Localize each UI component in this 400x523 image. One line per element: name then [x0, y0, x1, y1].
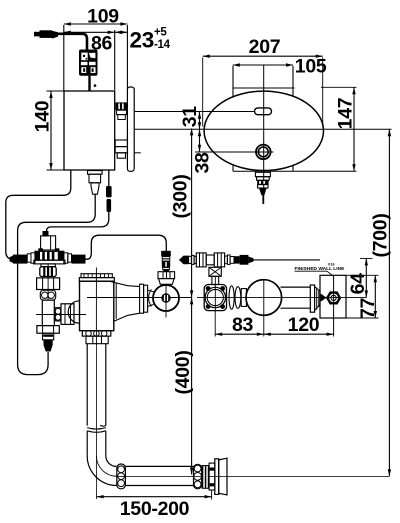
center line through plate — [134, 128, 391, 130]
side inlet dark piece — [234, 256, 240, 263]
side tee union with X pattern — [209, 267, 221, 276]
spud flange — [215, 459, 219, 495]
svg-text:147: 147 — [335, 98, 357, 130]
side flush valve circle — [246, 280, 282, 316]
screw head — [256, 145, 271, 160]
right outlet rings — [64, 253, 68, 263]
actuator head (solenoid) — [153, 285, 179, 311]
side inlet block — [206, 255, 214, 265]
flush valve centerline — [95, 268, 97, 346]
svg-text:105: 105 — [295, 56, 327, 78]
dimension 83 — [215, 333, 264, 335]
dimension 38 — [199, 129, 201, 152]
vertical pipe upper — [86, 344, 88, 426]
outlet collar — [86, 336, 108, 344]
wall mounting plate — [127, 87, 134, 171]
power plug — [34, 32, 41, 37]
svg-text:+5: +5 — [154, 27, 167, 39]
flush valve bottom flange — [82, 331, 111, 336]
dimension (700) — [388, 129, 390, 476]
inlet ring pair — [55, 308, 61, 321]
sensor plug below stop valve — [44, 340, 53, 352]
outlet arm to actuator — [110, 281, 140, 286]
mounting frame top — [233, 87, 295, 89]
mounting frame verticals — [232, 66, 234, 98]
horizontal pipe centerline — [117, 475, 390, 477]
dimension 77 — [374, 275, 376, 318]
inlet barrel nut — [61, 304, 74, 325]
side inlet rings 2 — [225, 256, 228, 264]
vertical pipe lower — [86, 431, 88, 456]
stack centerline — [47, 264, 49, 300]
flush valve body centerline — [87, 297, 192, 299]
cable with inline connectors — [108, 170, 110, 186]
stack: ribbed nut — [40, 267, 56, 277]
control box — [64, 91, 115, 170]
dimension 31 — [199, 112, 201, 129]
cable gland at box bottom — [88, 171, 103, 175]
upper wall fitting — [116, 102, 128, 110]
side valve cylinder — [281, 286, 311, 288]
svg-text:64: 64 — [347, 273, 369, 295]
dimension 140 (box height) — [50, 91, 52, 170]
solenoid valve riser — [41, 236, 56, 250]
spud trumpet — [219, 458, 227, 495]
svg-text:207: 207 — [249, 36, 281, 58]
pipe centerline — [96, 345, 98, 499]
dimension 207 (plate width) — [203, 55, 323, 57]
elbow — [87, 456, 117, 486]
inlet centerline — [36, 314, 86, 316]
wall box hex nut — [327, 292, 340, 303]
flush valve body — [80, 281, 114, 331]
stop valve tube — [42, 300, 54, 326]
dimension 105 (frame width) — [233, 64, 293, 66]
left cable connector — [13, 255, 27, 264]
sensor line to slot — [134, 111, 255, 113]
solenoid valve body — [35, 251, 64, 260]
svg-text:(700): (700) — [370, 213, 392, 257]
power cable into solenoid — [58, 34, 87, 50]
solenoid valve ears — [38, 248, 43, 251]
side valve tip — [321, 294, 327, 302]
pipe slip joint — [87, 428, 106, 430]
solenoid unit on top of box — [79, 50, 98, 76]
actuator fittings above head — [161, 251, 171, 257]
sensor window slot — [255, 108, 272, 115]
extension line right of 109/23 — [126, 25, 128, 88]
svg-text:(300): (300) — [170, 174, 192, 218]
cable fitting below plate — [255, 172, 270, 176]
riser terminal — [43, 231, 49, 237]
extension line left of 109 — [63, 25, 65, 91]
dimension 120 — [264, 333, 334, 335]
side inlet hex 1 — [196, 253, 206, 267]
dimension 64 — [365, 258, 367, 297]
svg-text:150-200: 150-200 — [120, 498, 190, 520]
svg-text:(400): (400) — [172, 350, 194, 394]
svg-text:V16: V16 — [328, 262, 335, 266]
extension line at box right edge — [114, 30, 116, 90]
hatch between band and head — [149, 290, 152, 307]
stack: ball fitting — [40, 290, 55, 300]
finished wall label — [295, 266, 346, 272]
dimension 109 (top overall width) — [64, 23, 128, 25]
dimension 150-200 — [97, 496, 212, 498]
right cable connector — [72, 255, 86, 264]
svg-text:-14: -14 — [154, 39, 171, 51]
side stop valve body — [204, 285, 226, 311]
dimension (400) — [191, 297, 193, 474]
stack: collar — [43, 333, 54, 340]
spud threads — [202, 465, 209, 489]
cable gland-to-stopvalve (long loop) — [18, 194, 96, 374]
side valve crosshair — [197, 297, 366, 299]
svg-text:109: 109 — [87, 5, 119, 27]
side stop valve tube — [212, 276, 219, 284]
lower wall fitting — [115, 140, 127, 147]
stack: hex nut — [37, 278, 60, 290]
spud coupling nut — [194, 464, 202, 488]
left inlet rings — [31, 253, 35, 263]
wire stub from plate — [134, 152, 141, 154]
side connector piece — [241, 289, 246, 307]
horizontal pipe — [125, 465, 193, 467]
svg-text:83: 83 — [232, 314, 254, 336]
side union ovals — [229, 286, 234, 309]
svg-text:23: 23 — [130, 28, 154, 53]
svg-text:120: 120 — [288, 314, 320, 336]
side inlet rings — [189, 256, 192, 263]
spud band — [209, 463, 215, 490]
side inlet black connector — [179, 256, 189, 265]
side inlet hex 2 — [214, 253, 224, 267]
svg-text:31: 31 — [179, 106, 201, 128]
mounting frame bottom / 147 extension — [233, 170, 357, 172]
cable arc to actuator — [86, 235, 167, 259]
stack: hex nut 2 — [37, 326, 59, 334]
plate vertical centerline — [263, 65, 265, 204]
dimension (300) — [191, 128, 193, 297]
svg-text:140: 140 — [32, 100, 54, 132]
oval cover plate — [204, 91, 323, 170]
wall box (side view of plate) — [320, 275, 346, 318]
svg-text:38: 38 — [191, 152, 213, 174]
pipe coupling ring — [117, 464, 126, 489]
side cable connector — [240, 255, 249, 265]
flush valve cap — [81, 274, 112, 278]
cable box-to-valve left (outer) — [6, 170, 71, 259]
dimension 147 (plate height) — [353, 87, 355, 171]
cable below plate — [262, 195, 264, 204]
wire solenoid to box — [88, 76, 90, 91]
line to screw — [195, 151, 274, 153]
stack below valve: flange — [41, 264, 55, 267]
dimension 86/23 line — [64, 31, 128, 33]
svg-text:77: 77 — [357, 298, 379, 319]
cable to wall — [254, 259, 321, 261]
